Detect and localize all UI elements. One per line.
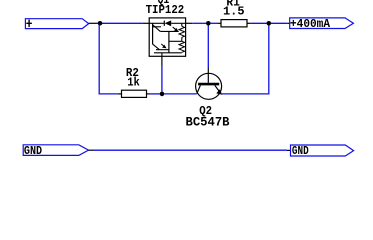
wire R2 to TIP122 base junction	[150, 93, 160, 95]
Q1 base pin inside	[161, 53, 163, 57]
Q2 base bar	[198, 83, 219, 86]
node junction at +IN rail	[98, 21, 103, 26]
wire TIP122 to node B	[192, 22, 206, 24]
resistor R2 body	[122, 90, 147, 97]
wire node B down to Q2 base	[207, 26, 209, 68]
pin stub from +IN tip	[89, 22, 97, 24]
connector +IN	[25, 19, 88, 29]
transistor U Q1 TIP122 outline box	[149, 18, 185, 56]
svg-text:1k: 1k	[127, 75, 140, 89]
wire node C down to Q2 emitter	[222, 26, 269, 94]
connector +400mA	[290, 18, 354, 29]
pin stub TIP122 base below box	[161, 56, 163, 66]
node B junction before R1	[206, 21, 211, 26]
pin stub GND left	[89, 149, 94, 151]
Q2 emitter diagonal	[215, 85, 220, 92]
node C junction after R1	[267, 21, 272, 26]
pin stub R1 right	[247, 22, 251, 24]
svg-text:+400mA: +400mA	[290, 17, 331, 31]
wire R1 to node C	[251, 22, 267, 24]
Q1 internal T1 stub	[153, 26, 161, 28]
Q1 internal T2 collector diagonal	[153, 44, 159, 49]
wire GND rail	[94, 149, 288, 151]
Q1 internal resistor R-b zigzag	[179, 41, 185, 52]
Q1 internal diode D cathode bar	[163, 21, 165, 26]
Q2 collector diagonal	[197, 85, 201, 93]
pin stub TIP122 emitter right	[186, 22, 193, 24]
pin stub +400mA connector	[287, 22, 290, 24]
label + on input connector	[26, 20, 32, 27]
pin stub R2 left	[118, 93, 122, 95]
Q1 internal T2 base link	[169, 40, 182, 42]
Q1 internal resistor R-a top stub	[181, 23, 183, 26]
pin stub TIP122 collector	[143, 22, 150, 24]
Q1 internal T1 collector diagonal	[153, 25, 160, 31]
wire node B to R1	[210, 22, 217, 24]
Q1 internal T2 emitter diagonal with arrow	[161, 44, 164, 47]
svg-text:GND: GND	[292, 145, 309, 158]
transistor Q2 BC547B circle	[196, 73, 222, 99]
wire down from + junction	[99, 25, 118, 94]
Q1 internal emitter line	[171, 22, 185, 24]
Q1 internal T1 base bar	[152, 23, 154, 44]
Q1 internal link stub between resistors	[181, 37, 183, 41]
pin stub R2 right	[147, 93, 151, 95]
pin stub Q2 base	[207, 68, 209, 74]
connector GND right	[291, 145, 354, 156]
node D junction base of TIP122	[160, 92, 165, 97]
wire node D to Q2 collector	[164, 93, 197, 95]
Q1 internal resistor R-a zigzag	[179, 26, 185, 37]
svg-text:BC547B: BC547B	[186, 114, 230, 129]
wire node C to +400mA connector	[271, 22, 287, 24]
connector GND left	[23, 145, 88, 156]
Q1 internal emitter rail bottom	[154, 52, 182, 54]
svg-text:TIP122: TIP122	[146, 3, 185, 17]
pin stub R1 left	[217, 22, 221, 24]
Q2 base lead inside	[207, 73, 209, 82]
resistor R1 body	[221, 20, 247, 27]
wire TIP122 base drop	[161, 66, 163, 92]
pin stub GND right	[287, 149, 291, 151]
svg-text:GND: GND	[24, 145, 42, 158]
Q2 emitter arrow	[216, 89, 222, 95]
Q1 internal collector line	[149, 22, 164, 24]
Q1 internal T2 base vertical	[168, 31, 170, 52]
Q1 internal node line	[160, 30, 178, 32]
svg-text:1.5: 1.5	[223, 5, 245, 19]
Q1 internal T2 emitter line	[156, 49, 169, 51]
wire +IN to TIP122	[97, 22, 143, 24]
Q1 internal diode D triangle	[165, 20, 172, 26]
Q1 internal T1 emitter diagonal with arrow	[173, 27, 176, 30]
